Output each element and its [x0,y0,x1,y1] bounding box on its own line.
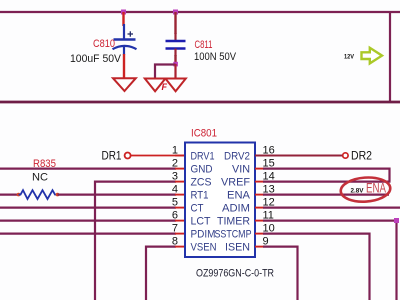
svg-text:7: 7 [172,223,178,235]
pin stub 14 [255,181,264,183]
svg-text:4: 4 [172,184,178,196]
svg-text:12V: 12V [344,54,354,61]
power arrow 12V [362,48,383,64]
svg-text:VREF: VREF [221,177,250,189]
svg-text:OZ9976GN-C-0-TR: OZ9976GN-C-0-TR [196,268,274,280]
wire C811 bottom lead [174,55,176,64]
node junction C810 top [121,10,126,15]
svg-text:ENA: ENA [366,181,386,196]
svg-text:DR1: DR1 [102,149,122,163]
svg-text:ISEN: ISEN [225,242,250,254]
pin stub 9 [255,246,264,248]
pin stub 16 / wire to DR2 [255,155,343,157]
svg-text:VIN: VIN [232,164,250,176]
node junction C811 top [173,10,178,15]
pin stub 11 [255,220,264,222]
svg-text:F: F [162,82,168,92]
svg-text:6: 6 [172,210,178,222]
wire net pin12 ADIM [263,207,400,209]
wire top 12V bus [0,11,400,13]
pin stub 7 [175,233,185,235]
wire net pin4 left segment [0,194,19,196]
svg-text:ENA: ENA [227,190,251,202]
wire to right ground [174,64,176,78]
wire net pin5 CT [0,207,176,209]
pin stub 4 [175,194,185,196]
ground C810 [113,78,136,91]
svg-text:DR2: DR2 [351,149,372,163]
wire C810 bottom lead [123,54,125,78]
wire C810 top lead [122,12,124,26]
wire jog to left ground [155,65,176,79]
pin stub 3 [175,181,185,183]
ground C811 left (F) [145,79,166,92]
pin stub 5 [175,207,185,209]
pin stub 12 [255,207,264,209]
svg-text:2.8V: 2.8V [351,187,365,194]
wire vertical right bus drop [389,12,391,102]
svg-text:GND: GND [191,164,213,176]
svg-text:DRV1: DRV1 [191,151,215,163]
svg-text:DRV2: DRV2 [224,151,250,163]
svg-text:IC801: IC801 [191,128,217,140]
wire net pin7 PDIM [0,233,176,235]
svg-text:TIMER: TIMER [217,216,250,228]
pin stub 2 [175,168,185,170]
svg-text:2: 2 [172,158,178,170]
svg-text:NC: NC [32,172,48,184]
wire net pin11 TIMER with vertical drop [263,221,397,300]
node DR1 open circle [125,153,131,159]
svg-text:100uF 50V: 100uF 50V [70,53,122,65]
pin stub 15 [255,168,264,170]
svg-text:RT1: RT1 [191,190,209,202]
wire net pin6 LCT [0,220,176,222]
op-amp IC801 body [185,143,255,258]
wire net pin3 ZCS with vertical drop [95,182,176,300]
svg-text:SSTCMP: SSTCMP [215,229,252,241]
wire net pin15 VIN [263,169,390,182]
svg-text:ZCS: ZCS [191,177,212,189]
node junction C811 bottom [173,62,178,67]
svg-text:100N 50V: 100N 50V [194,51,237,63]
svg-text:CT: CT [191,203,204,215]
svg-text:5: 5 [172,197,178,209]
pin stub 10 [255,233,264,235]
capacitor C811 [166,33,186,56]
wire net pin14 VREF [263,181,391,183]
annotation ellipse 2.8V ENA [340,176,391,203]
wire DR1 to pin1 [131,155,185,157]
svg-text:LCT: LCT [191,216,211,228]
pin stub 8 [175,246,185,248]
svg-text:1: 1 [172,145,178,157]
capacitor C810 [113,24,137,55]
pin stub 1 [175,155,185,157]
svg-text:8: 8 [172,236,178,248]
svg-text:ADIM: ADIM [222,203,250,215]
wire net pin13 ENA [263,194,389,196]
ground C811 right [165,79,185,92]
wire net pin10 SSTCMP with vertical drop [263,234,370,300]
wire net pin2 GND [0,168,176,170]
wire net pin9 ISEN with vertical drop [263,247,298,300]
svg-text:VSEN: VSEN [191,242,217,254]
svg-text:PDIM: PDIM [191,229,216,241]
wire net pin8 VSEN with vertical drop [146,247,176,300]
node DR2 open circle [343,153,348,158]
wire net pin4 right segment [58,194,177,196]
pin stub 13 [255,194,264,196]
node junction pin11 [394,218,399,223]
wire C811 top lead [174,12,176,34]
svg-text:C810: C810 [93,38,115,50]
pin stub 6 [175,220,185,222]
wire horizontal mid bus [0,101,400,104]
svg-text:C811: C811 [195,39,213,51]
svg-text:3: 3 [172,171,178,183]
resistor R835 body [17,190,60,199]
